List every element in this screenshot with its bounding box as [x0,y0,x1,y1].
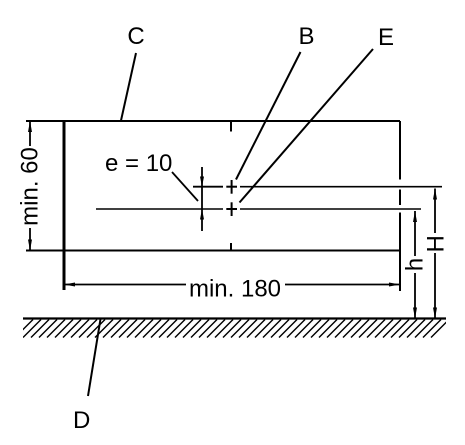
svg-text:D: D [73,407,90,434]
svg-text:e = 10: e = 10 [105,150,172,177]
svg-text:H: H [423,235,450,252]
svg-text:E: E [378,24,394,51]
svg-text:min. 180: min. 180 [189,276,281,303]
svg-text:C: C [127,23,144,50]
svg-text:min. 60: min. 60 [16,147,43,226]
svg-text:h: h [402,258,429,271]
svg-text:B: B [298,23,314,50]
